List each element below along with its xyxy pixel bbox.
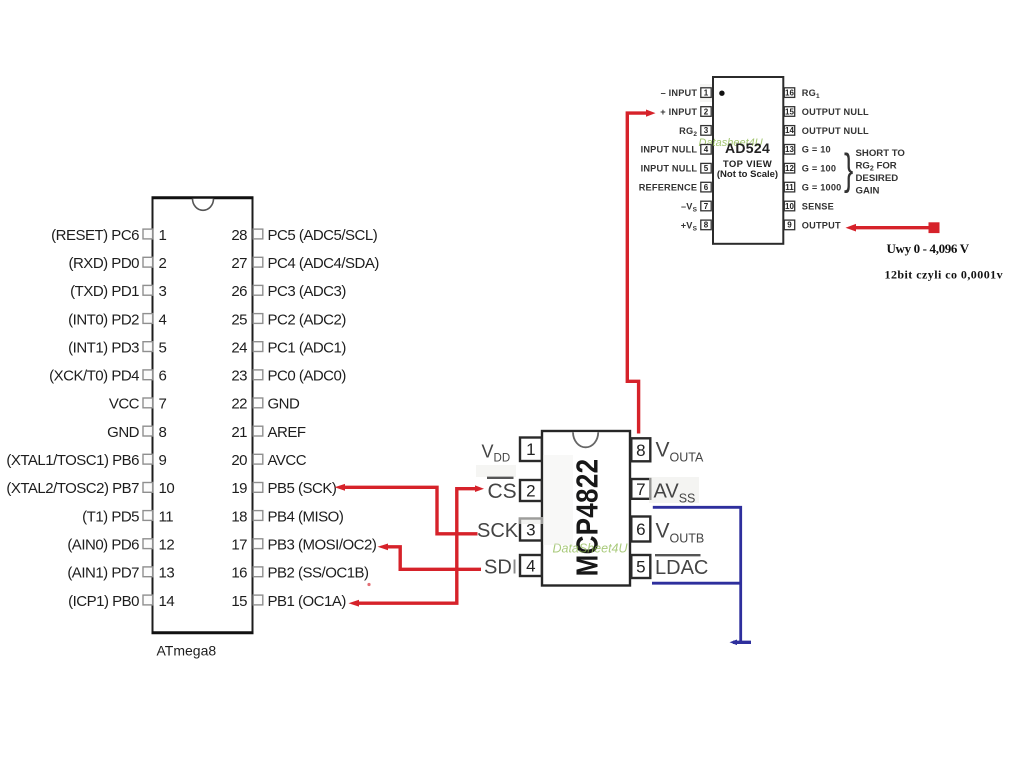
svg-text:1: 1 xyxy=(159,227,167,244)
svg-text:8: 8 xyxy=(159,424,167,441)
svg-text:14: 14 xyxy=(159,593,175,610)
svg-text:GND: GND xyxy=(107,424,140,441)
AD524 pin 5 INPUT NULL xyxy=(641,163,712,173)
svg-text:(INT0) PD2: (INT0) PD2 xyxy=(68,311,139,328)
wire: ATmega8 PB5(SCK) to MCP4822 SCK (red) xyxy=(335,484,478,534)
svg-text:15: 15 xyxy=(785,107,794,116)
MCP4822 part number (vertical) xyxy=(571,459,606,577)
svg-text:PB2 (SS/OC1B): PB2 (SS/OC1B) xyxy=(268,565,370,582)
svg-text:9: 9 xyxy=(159,452,167,469)
svg-text:21: 21 xyxy=(231,424,247,441)
svg-text:AVCC: AVCC xyxy=(268,452,307,469)
svg-text:ATmega8: ATmega8 xyxy=(157,643,217,659)
svg-text:3: 3 xyxy=(704,126,709,135)
svg-text:7: 7 xyxy=(159,396,167,413)
svg-text:PC2 (ADC2): PC2 (ADC2) xyxy=(268,311,347,328)
ATmega8 pin 24 PC1 (ADC1) xyxy=(231,339,346,356)
MCP4822 pin 4 SDI box xyxy=(520,555,542,576)
ATmega8 pin 8 GND xyxy=(107,424,166,441)
svg-text:SENSE: SENSE xyxy=(802,201,834,211)
svg-text:6: 6 xyxy=(636,520,645,539)
svg-text:16: 16 xyxy=(231,565,247,582)
ATmega8 pin 4 (INT0) PD2 xyxy=(68,311,166,328)
ATmega8 pin 20 AVCC xyxy=(231,452,306,469)
svg-text:(RESET) PC6: (RESET) PC6 xyxy=(51,227,139,244)
svg-text:(AIN1) PD7: (AIN1) PD7 xyxy=(67,565,139,582)
AD524 pin 12 G = 100 xyxy=(784,163,836,173)
stray red speck xyxy=(367,583,370,586)
svg-text:19: 19 xyxy=(231,480,247,497)
ATmega8 pin 21 AREF xyxy=(231,424,306,441)
svg-text:SHORT TO: SHORT TO xyxy=(856,148,906,159)
ATmega8 pin 26 PC3 (ADC3) xyxy=(231,283,346,300)
svg-text:10: 10 xyxy=(159,480,175,497)
svg-text:3: 3 xyxy=(159,283,167,300)
svg-text:INPUT NULL: INPUT NULL xyxy=(641,145,698,155)
svg-text:25: 25 xyxy=(231,311,247,328)
AD524 pin 16 RG1 xyxy=(784,88,820,100)
svg-text:AD524: AD524 xyxy=(725,140,770,156)
svg-text:4: 4 xyxy=(704,145,709,154)
IC U2 MCP4822 body xyxy=(542,431,630,586)
svg-text:GAIN: GAIN xyxy=(856,186,880,197)
svg-text:OUTPUT NULL: OUTPUT NULL xyxy=(802,107,869,117)
svg-text:28: 28 xyxy=(231,227,247,244)
AD524 pin 10 SENSE xyxy=(784,201,834,211)
svg-text:DESIRED: DESIRED xyxy=(856,173,899,184)
svg-text:(Not to Scale): (Not to Scale) xyxy=(717,169,778,180)
ATmega8 pin 7 VCC xyxy=(109,396,167,413)
ATmega8 pin 22 GND xyxy=(231,396,300,413)
svg-text:7: 7 xyxy=(636,480,645,499)
IC U3 AD524 body xyxy=(713,77,783,244)
AD524 pin 4 INPUT NULL xyxy=(641,145,712,155)
MCP4822 pin-1 notch xyxy=(573,432,598,447)
svg-text:Uwy 0 - 4,096 V: Uwy 0 - 4,096 V xyxy=(887,241,970,256)
svg-text:12: 12 xyxy=(785,164,794,173)
AD524 gain note text xyxy=(856,148,906,197)
svg-text:SDI: SDI xyxy=(484,557,517,579)
svg-text:7: 7 xyxy=(704,202,709,211)
svg-text:15: 15 xyxy=(231,593,247,610)
svg-text:– INPUT: – INPUT xyxy=(661,88,698,98)
svg-text:9: 9 xyxy=(787,221,792,230)
svg-text:SCK: SCK xyxy=(477,520,519,542)
AD524 pin 3 RG2 xyxy=(679,126,711,138)
MCP4822 pin 1 VDD box xyxy=(520,438,542,462)
svg-text:PB5 (SCK): PB5 (SCK) xyxy=(268,480,337,497)
svg-text:27: 27 xyxy=(231,255,247,272)
AD524 pin 7 -VS xyxy=(681,201,711,213)
svg-text:(XTAL2/TOSC2) PB7: (XTAL2/TOSC2) PB7 xyxy=(6,480,139,497)
wire: MCP4822 LDAC branch (blue) xyxy=(652,582,741,585)
svg-text:22: 22 xyxy=(231,396,247,413)
svg-text:AREF: AREF xyxy=(268,424,306,441)
svg-text:(ICP1) PB0: (ICP1) PB0 xyxy=(68,593,139,610)
AD524 pin 9 OUTPUT xyxy=(784,220,841,230)
ATmega8 pin 3 (TXD) PD1 xyxy=(70,283,166,300)
ATmega8 pin 16 PB2 (SS/OC1B) xyxy=(231,565,369,582)
svg-text:11: 11 xyxy=(785,183,794,192)
wire: ATmega8 PB1(OC1A) to MCP4822 CS (red) xyxy=(349,485,485,606)
wire: ATmega8 PB3(MOSI) to MCP4822 SDI (red) xyxy=(378,544,482,570)
svg-text:8: 8 xyxy=(704,221,709,230)
ATmega8 pin-1 notch xyxy=(193,199,214,211)
svg-text:PC5 (ADC5/SCL): PC5 (ADC5/SCL) xyxy=(268,227,378,244)
svg-text:12bit czyli co 0,0001v: 12bit czyli co 0,0001v xyxy=(885,267,1004,281)
svg-text:(XCK/T0) PD4: (XCK/T0) PD4 xyxy=(49,368,139,385)
svg-text:13: 13 xyxy=(785,145,794,154)
svg-text:OUTPUT NULL: OUTPUT NULL xyxy=(802,126,869,136)
svg-text:4: 4 xyxy=(526,557,535,576)
MCP4822 pin 8 VOUTA box xyxy=(631,438,650,461)
ATmega8 pin 6 (XCK/T0) PD4 xyxy=(49,368,166,385)
wire: MCP4822 VOUTA to AD524 +INPUT (red) xyxy=(627,110,655,434)
AD524 pin 11 G = 1000 xyxy=(784,182,841,192)
svg-text:1: 1 xyxy=(704,88,709,97)
svg-text:(INT1) PD3: (INT1) PD3 xyxy=(68,339,139,356)
ATmega8 pin 12 (AIN0) PD6 xyxy=(67,537,174,554)
svg-text:2: 2 xyxy=(159,255,167,272)
svg-text:LDAC: LDAC xyxy=(655,557,708,579)
svg-text:+ INPUT: + INPUT xyxy=(660,107,697,117)
svg-text:REFERENCE: REFERENCE xyxy=(639,183,697,193)
svg-text:2: 2 xyxy=(704,107,709,116)
AD524 pin 15 OUTPUT NULL xyxy=(784,107,869,117)
ATmega8 pin 10 (XTAL2/TOSC2) PB7 xyxy=(6,480,174,497)
MCP4822 pin 2 label CS (active low) xyxy=(487,478,517,503)
ATmega8 pin 2 (RXD) PD0 xyxy=(68,255,166,272)
svg-text:VCC: VCC xyxy=(109,396,140,413)
MCP4822 pin 6 VOUTB box xyxy=(631,517,650,542)
svg-text:(T1) PD5: (T1) PD5 xyxy=(82,508,139,525)
ATmega8 pin 5 (INT1) PD3 xyxy=(68,339,166,356)
AD524 pin 8 +VS xyxy=(681,220,711,232)
svg-text:6: 6 xyxy=(159,368,167,385)
svg-text:17: 17 xyxy=(231,537,247,554)
svg-text:6: 6 xyxy=(704,183,709,192)
ATmega8 pin 28 PC5 (ADC5/SCL) xyxy=(231,227,377,244)
svg-text:G = 1000: G = 1000 xyxy=(802,183,842,193)
svg-text:PB4 (MISO): PB4 (MISO) xyxy=(268,508,344,525)
ATmega8 pin 23 PC0 (ADC0) xyxy=(231,368,346,385)
ATmega8 pin 13 (AIN1) PD7 xyxy=(67,565,174,582)
svg-text:PB1 (OC1A): PB1 (OC1A) xyxy=(268,593,347,610)
ATmega8 pin 27 PC4 (ADC4/SDA) xyxy=(231,255,379,272)
MCP4822 pin 2 CS box xyxy=(520,480,542,501)
MCP4822 pin 5 LDAC box xyxy=(631,555,650,578)
ATmega8 pin 14 (ICP1) PB0 xyxy=(68,593,174,610)
svg-text:11: 11 xyxy=(159,508,174,525)
AD524 pin 2 +INPUT xyxy=(660,107,711,117)
svg-text:24: 24 xyxy=(231,339,247,356)
svg-text:(TXD) PD1: (TXD) PD1 xyxy=(70,283,139,300)
IC U1 ATmega8 body xyxy=(152,198,254,634)
svg-text:GND: GND xyxy=(268,396,301,413)
svg-text:(AIN0) PD6: (AIN0) PD6 xyxy=(67,537,139,554)
wire: MCP4822 VOUTB branch (blue) xyxy=(653,507,741,641)
ATmega8 pin 11 (T1) PD5 xyxy=(82,508,173,525)
ATmega8 pin 1 (RESET) PC6 xyxy=(51,227,166,244)
svg-text:13: 13 xyxy=(159,565,175,582)
svg-text:5: 5 xyxy=(159,339,167,356)
svg-text:}: } xyxy=(844,144,853,193)
svg-text:PB3 (MOSI/OC2): PB3 (MOSI/OC2) xyxy=(268,537,377,554)
MCP4822 pin 5 label LDAC (active low) xyxy=(655,555,708,579)
AD524 pin 13 G = 10 xyxy=(784,145,831,155)
svg-text:26: 26 xyxy=(231,283,247,300)
ATmega8 pin 19 PB5 (SCK) xyxy=(231,480,337,497)
svg-text:5: 5 xyxy=(704,164,709,173)
scan artifact smudges xyxy=(476,84,712,545)
svg-text:2: 2 xyxy=(526,482,535,501)
AD524 pin 6 REFERENCE xyxy=(639,182,711,192)
ATmega8 pin 18 PB4 (MISO) xyxy=(231,508,344,525)
ATmega8 pin 9 (XTAL1/TOSC1) PB6 xyxy=(6,452,166,469)
svg-text:20: 20 xyxy=(231,452,247,469)
svg-text:16: 16 xyxy=(785,88,794,97)
MCP4822 pin 3 SCK box xyxy=(520,519,542,541)
svg-text:12: 12 xyxy=(159,537,175,554)
svg-text:G = 100: G = 100 xyxy=(802,164,836,174)
svg-text:OUTPUT: OUTPUT xyxy=(802,220,841,230)
svg-text:(XTAL1/TOSC1) PB6: (XTAL1/TOSC1) PB6 xyxy=(6,452,139,469)
svg-text:23: 23 xyxy=(231,368,247,385)
svg-text:1: 1 xyxy=(526,440,535,459)
svg-text:RG2 FOR: RG2 FOR xyxy=(856,161,897,173)
AD524 pin 1 -INPUT xyxy=(661,88,712,98)
ATmega8 pin 25 PC2 (ADC2) xyxy=(231,311,346,328)
svg-text:PC1 (ADC1): PC1 (ADC1) xyxy=(268,339,347,356)
wire: AD524 OUTPUT to terminal (red, with square end) xyxy=(846,222,940,233)
svg-text:8: 8 xyxy=(636,441,645,460)
svg-text:G = 10: G = 10 xyxy=(802,145,831,155)
svg-text:14: 14 xyxy=(785,126,794,135)
AD524 pin-1 dot xyxy=(719,91,724,96)
svg-text:CS: CS xyxy=(488,480,517,503)
svg-text:10: 10 xyxy=(785,202,794,211)
AD524 TOP VIEW caption xyxy=(717,159,778,180)
blue wire end bar (terminal) xyxy=(730,640,752,646)
MCP4822 pin 7 AVSS box xyxy=(631,479,650,499)
svg-text:MCP4822: MCP4822 xyxy=(571,459,606,577)
AD524 pin 14 OUTPUT NULL xyxy=(784,126,869,136)
svg-text:PC4 (ADC4/SDA): PC4 (ADC4/SDA) xyxy=(268,255,380,272)
svg-text:(RXD) PD0: (RXD) PD0 xyxy=(68,255,139,272)
svg-text:PC3 (ADC3): PC3 (ADC3) xyxy=(268,283,347,300)
ATmega8 pin 17 PB3 (MOSI/OC2) xyxy=(231,537,377,554)
ATmega8 pin 15 PB1 (OC1A) xyxy=(231,593,346,610)
svg-text:INPUT NULL: INPUT NULL xyxy=(641,164,698,174)
svg-text:4: 4 xyxy=(159,311,167,328)
svg-text:18: 18 xyxy=(231,508,247,525)
svg-text:5: 5 xyxy=(636,558,645,577)
svg-text:PC0 (ADC0): PC0 (ADC0) xyxy=(268,368,347,385)
